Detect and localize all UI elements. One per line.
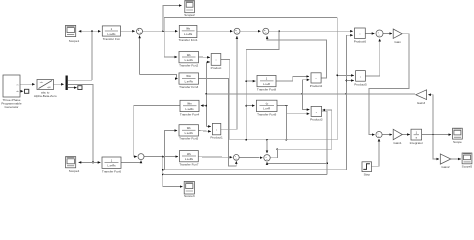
sum SA — [233, 155, 239, 161]
wire into TF1 — [92, 30, 101, 32]
wire cross horizontal y139.8 — [230, 139, 338, 141]
svg-text:Scope: Scope — [453, 140, 462, 144]
wire demux alpha out — [68, 79, 92, 81]
label Transfer Fcn6b — [102, 169, 121, 173]
label Step — [364, 173, 371, 177]
wire omega stub to flipped TF3b — [201, 105, 207, 107]
node on Gain3 line — [302, 93, 348, 95]
wire branch down x286.5 — [286, 106, 288, 140]
label Scope — [453, 140, 462, 144]
wire into SB bottom — [267, 162, 327, 163]
wire stub into Product5 lower input — [346, 80, 353, 82]
scope Scope3 — [184, 181, 194, 194]
label Transfer Fcn7 — [179, 163, 198, 167]
svg-text:Transfer Fcn2: Transfer Fcn2 — [179, 64, 198, 68]
node junction x327.1 — [326, 163, 328, 165]
svg-text:Product6: Product6 — [354, 39, 367, 43]
transfer-fcn TF2 — [179, 52, 199, 63]
transfer-fcn TF6 — [256, 100, 277, 111]
product P5 — [356, 71, 366, 82]
svg-text:Transfer Fcn7: Transfer Fcn7 — [179, 163, 198, 167]
wire alpha riser — [91, 31, 93, 80]
integrator U3 — [411, 129, 422, 140]
label Product6 — [354, 39, 367, 43]
node stub junction P5 — [346, 80, 348, 82]
wire omega stub to Product — [206, 61, 209, 63]
label Product3 — [310, 117, 323, 121]
gain Gain1 — [393, 129, 402, 139]
node TF6 input junction — [245, 105, 247, 107]
svg-text:Transfer Fcn8: Transfer Fcn8 — [257, 88, 276, 92]
wire S1 to TF1b — [143, 30, 178, 32]
gain Gain3 flipped — [416, 90, 427, 100]
svg-text:Transfer Fcn1: Transfer Fcn1 — [179, 38, 198, 42]
svg-text:Generator: Generator — [5, 105, 19, 109]
node beta junction — [92, 161, 94, 163]
wire stub into TF6 — [246, 105, 254, 107]
svg-text:-Lr: -Lr — [265, 102, 268, 106]
svg-text:Wm: Wm — [186, 74, 191, 78]
terminator T2 — [68, 86, 82, 90]
svg-text:Transfer Fcn9: Transfer Fcn9 — [257, 112, 276, 116]
wire SB top input — [266, 140, 268, 153]
node TF6 out junction — [286, 105, 288, 107]
svg-text:L.s+Rs: L.s+Rs — [185, 131, 194, 135]
wire right vertical x346.4 — [345, 35, 347, 170]
wire Product out down — [221, 59, 230, 139]
node alpha top junction — [91, 30, 93, 32]
svg-text:Scope4: Scope4 — [69, 169, 80, 173]
svg-text:Transfer Fcn4: Transfer Fcn4 — [180, 112, 199, 116]
scope Scope1 — [66, 25, 76, 36]
label Scope1 — [69, 39, 80, 43]
sum SumR — [376, 132, 382, 138]
node junctions on y139.8 — [245, 139, 287, 141]
svg-text:L.s+Rs: L.s+Rs — [185, 79, 194, 83]
label Scope3 — [184, 194, 195, 198]
svg-text:Product2: Product2 — [310, 84, 323, 88]
wire omega vertical — [205, 62, 207, 126]
svg-text:Transfer Fcn6: Transfer Fcn6 — [102, 169, 121, 173]
wire top feedback vertical — [336, 18, 338, 140]
sum S2 — [234, 28, 240, 34]
label Product1 — [210, 136, 223, 140]
wire stub into Product5 top input — [337, 74, 354, 76]
sum S3 — [263, 28, 269, 34]
wire S2 to S3 — [241, 30, 261, 32]
svg-text:Scope1: Scope1 — [69, 39, 80, 43]
transfer-fcn TF3b flipped — [180, 100, 199, 111]
node SB riser corner — [277, 148, 279, 150]
wire SumR to Gain1 — [382, 134, 392, 136]
step Step — [362, 162, 372, 172]
wire SA to SB — [239, 156, 262, 158]
transfer-fcn TF5 — [257, 75, 276, 86]
wire Gain2 to Scope5 — [451, 158, 461, 160]
label Scope2 — [184, 13, 195, 17]
svg-text:Gain3: Gain3 — [417, 101, 426, 105]
wire SB out up and to ProductX2 lower input — [271, 110, 332, 158]
wire flipped TF3b out to S1b — [134, 106, 180, 157]
wire riser to Scope2 — [163, 6, 182, 32]
node TF5 input junction — [245, 80, 247, 82]
node junction scope2 riser — [162, 30, 164, 32]
sum S1b — [138, 154, 144, 160]
wire branch down from S3 output — [246, 31, 279, 140]
transfer-fcn TF1 — [102, 26, 120, 36]
label Transfer Fcn9 — [257, 112, 276, 116]
wire omega stub to Product1 — [206, 125, 210, 127]
wire S4 to Gain — [383, 33, 392, 35]
label Transfer Fcn4f — [180, 112, 199, 116]
gain Gain2 — [440, 154, 451, 164]
transfer-fcn TF6b — [180, 151, 199, 162]
wire S1 column to TF3 input — [140, 75, 178, 79]
svg-text:L.s+Rs: L.s+Rs — [107, 163, 116, 167]
wire TF1 to sum S1 — [121, 30, 135, 32]
wire Step out up to SumR bottom — [372, 139, 380, 166]
Three-Phase Programmable Generator — [3, 75, 20, 97]
wire Gain3 output line — [206, 93, 415, 95]
wire into Scope1 — [79, 30, 92, 32]
svg-text:Product: Product — [211, 66, 222, 70]
svg-text:Alpha-Beta-Zero: Alpha-Beta-Zero — [34, 94, 57, 98]
wire vertical x327.1 from ProductX2 — [322, 111, 328, 174]
wire bottom feedback y174.5 — [163, 174, 327, 176]
terminator T1 — [25, 89, 29, 93]
svg-text:L.s+Rs: L.s+Rs — [185, 107, 194, 111]
product P1 — [212, 123, 220, 134]
wire stub into TF5 — [246, 80, 255, 82]
wire up to Gain3 input — [428, 95, 433, 135]
wire TF3 out down to SA bottom — [199, 79, 237, 166]
label Product5 — [354, 82, 367, 86]
label Transfer Fcn1 — [179, 38, 198, 42]
scope Scope — [453, 128, 463, 139]
label Gain — [394, 40, 401, 44]
svg-text:L.s+Rs: L.s+Rs — [107, 32, 116, 36]
wire TF5b feed riser — [165, 131, 178, 170]
wire down to Gain2 — [433, 135, 439, 159]
demux D1 — [66, 76, 68, 91]
wire abc to demux — [54, 83, 64, 85]
product PX2 — [311, 106, 322, 116]
wire S1 bottom input — [139, 36, 141, 75]
wire TF2 out to Product — [199, 56, 210, 58]
wire TF4 out up into S1b — [121, 161, 141, 163]
sum SB — [264, 155, 270, 161]
label Transfer Fcn5b — [179, 137, 198, 141]
label Transfer Fcn8 — [257, 88, 276, 92]
svg-text:Integrator: Integrator — [410, 141, 423, 145]
wire Product1 out up to S2 top — [221, 36, 237, 129]
svg-text:Transfer Fcn3: Transfer Fcn3 — [179, 85, 198, 89]
svg-text:Transfer Fcn5: Transfer Fcn5 — [179, 137, 198, 141]
wire omega branch up to Product2 — [302, 80, 309, 110]
svg-text:L.s+Rs: L.s+Rs — [185, 58, 194, 62]
svg-text:Gain: Gain — [394, 40, 401, 44]
wire Gain1 to Integrator — [402, 134, 410, 136]
svg-text:Gain2: Gain2 — [441, 165, 450, 169]
label Gain3 — [417, 101, 426, 105]
svg-text:L.s+Rs: L.s+Rs — [185, 157, 194, 161]
node scope3 riser junction — [162, 156, 164, 158]
svg-text:Transfer Fcn: Transfer Fcn — [103, 37, 121, 41]
transfer-fcn TF3 — [179, 73, 199, 84]
wire Gain out feedback to SumR — [369, 34, 409, 135]
svg-text:L.s+R: L.s+R — [263, 107, 270, 111]
svg-text:Scope2: Scope2 — [184, 13, 195, 17]
svg-text:Product1: Product1 — [210, 136, 223, 140]
svg-text:L.s+R: L.s+R — [263, 82, 270, 86]
label Transfer Fcn — [103, 37, 121, 41]
wire S1b out to TF6b — [144, 156, 178, 158]
wire top feedback line to TF2 — [164, 18, 337, 57]
svg-text:Product3: Product3 — [310, 117, 323, 121]
node junctions on scope3 riser — [162, 169, 164, 176]
label Transfer Fcn3 — [179, 85, 198, 89]
label Transfer Fcn2 — [179, 64, 198, 68]
label Product2 — [310, 84, 323, 88]
wire Product5 out up to S4 bottom — [365, 39, 379, 76]
node omega junctions — [206, 93, 208, 107]
label generator — [1, 98, 22, 109]
wire riser to Scope3 — [163, 157, 183, 187]
product P2 — [311, 73, 321, 83]
sum S4 — [376, 30, 383, 37]
wire S3 to Product6 — [269, 30, 353, 32]
transfer-fcn TF4 — [102, 157, 121, 168]
abc to Alpha-Beta-Zero block U2 — [37, 80, 54, 90]
wire TF5 out to Product2 — [276, 76, 309, 81]
transfer-fcn TF1b — [179, 25, 197, 37]
wire TF1b to S2 — [197, 30, 233, 32]
wire Product6 out to S4 — [365, 33, 374, 35]
scope Scope2 — [185, 1, 195, 13]
wire TF6 out to ProductX2 — [277, 106, 309, 114]
svg-text:m: m — [17, 84, 19, 86]
label Integrator — [410, 141, 423, 145]
label Scope5 — [462, 164, 473, 168]
node junction after S3 — [278, 30, 280, 32]
wire TF6b out to SA — [198, 156, 232, 159]
wire gen output2 to terminator — [20, 90, 23, 92]
gain Gain — [393, 29, 402, 38]
label abc block — [34, 91, 57, 99]
svg-text:Scope5: Scope5 — [462, 164, 473, 168]
wire demux beta out — [68, 84, 93, 162]
svg-text:Step: Step — [364, 173, 371, 177]
product P6 — [355, 28, 366, 39]
node on x337.2 — [336, 75, 338, 77]
wire gen to abc — [20, 83, 35, 85]
wire TF5b out to Product1 — [199, 131, 211, 132]
wire into Scope4 — [79, 161, 93, 163]
wire Product2 out up to S3 bottom — [267, 36, 327, 78]
svg-text:L.s+Rs: L.s+Rs — [184, 32, 193, 36]
wire bottom feedback y169.8 — [163, 169, 347, 171]
wire Integrator to Scope — [422, 134, 452, 136]
svg-text:Product5: Product5 — [354, 82, 367, 86]
label Scope4 — [69, 169, 80, 173]
wire stub into Product6 lower input — [346, 34, 353, 36]
transfer-fcn TF5b — [179, 125, 199, 136]
label Gain1 — [393, 141, 402, 145]
scope Scope5 — [462, 153, 472, 164]
wire into TF4 — [93, 161, 100, 163]
label Gain2 — [441, 165, 450, 169]
svg-text:Gain1: Gain1 — [393, 141, 402, 145]
scope Scope4 — [66, 157, 76, 168]
svg-text:Scope3: Scope3 — [184, 194, 195, 197]
sum S1 — [137, 28, 143, 34]
node integrator out junction — [432, 134, 434, 136]
product P0 — [211, 54, 221, 66]
label Product — [211, 66, 222, 70]
svg-text:Wm: Wm — [187, 102, 192, 106]
